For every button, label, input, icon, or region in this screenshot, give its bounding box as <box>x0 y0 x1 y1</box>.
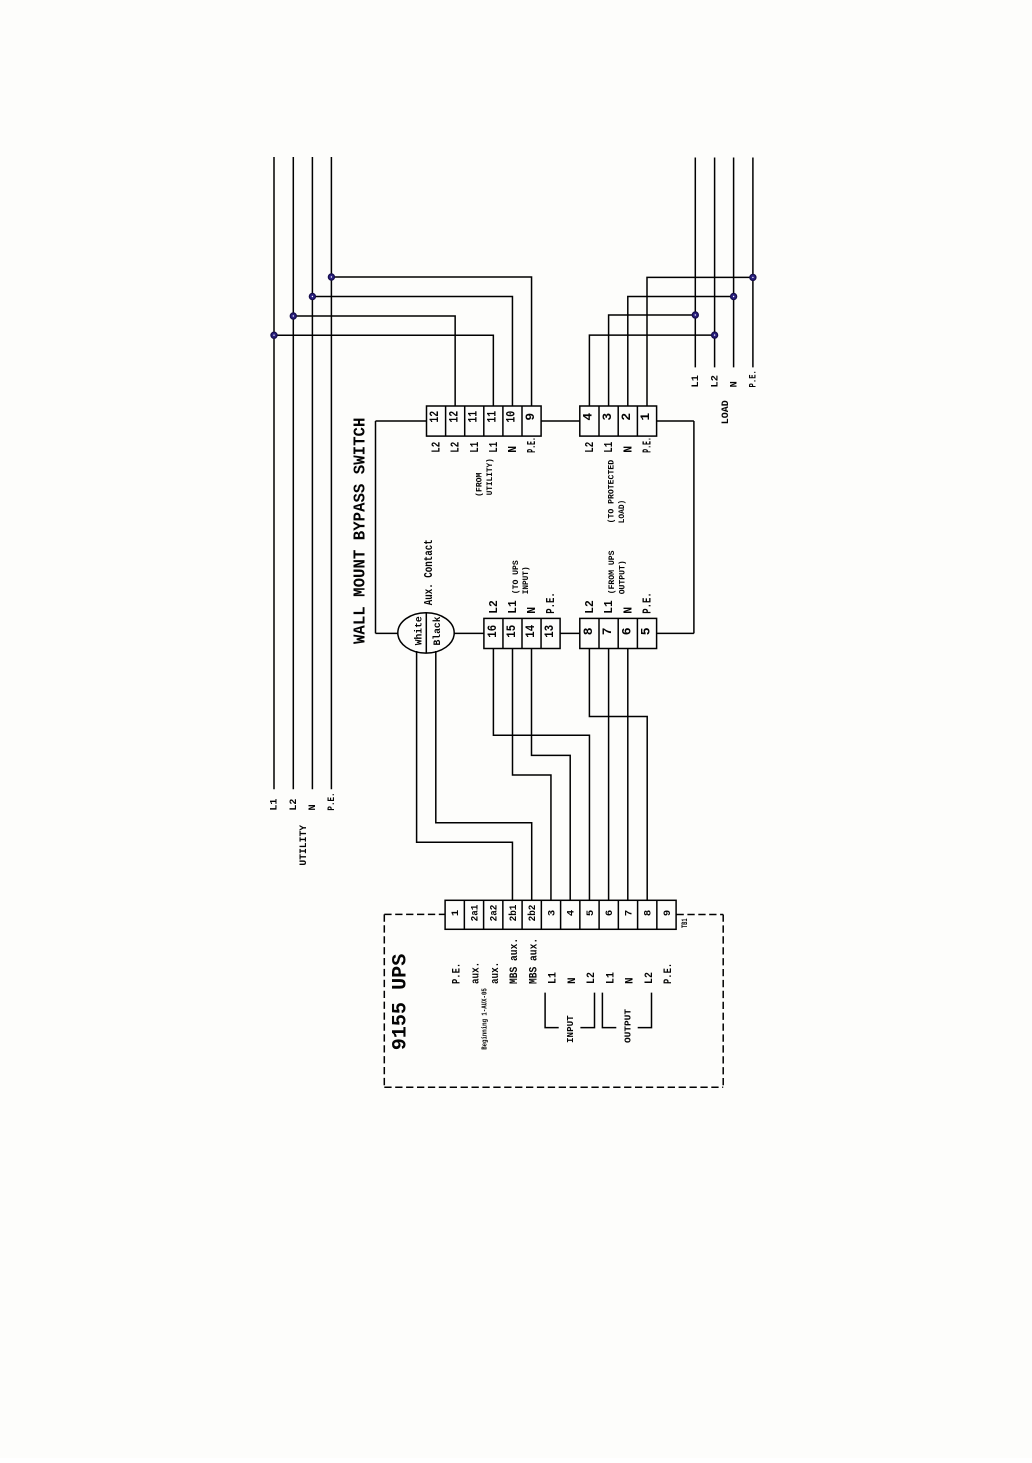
svg-text:L1: L1 <box>603 442 616 453</box>
svg-text:MBS aux.: MBS aux. <box>509 938 521 984</box>
svg-text:2b1: 2b1 <box>508 905 520 922</box>
svg-text:aux.: aux. <box>471 962 483 984</box>
svg-text:P.E.: P.E. <box>663 963 675 984</box>
svg-text:3: 3 <box>600 413 615 421</box>
svg-text:L2: L2 <box>584 600 597 614</box>
svg-text:aux.: aux. <box>490 962 502 984</box>
svg-text:L2: L2 <box>488 600 501 614</box>
svg-text:5: 5 <box>585 910 597 916</box>
svg-text:N: N <box>622 607 635 614</box>
svg-text:P.E.: P.E. <box>326 792 338 810</box>
svg-text:13: 13 <box>542 625 557 638</box>
svg-text:16: 16 <box>485 625 500 638</box>
svg-text:N: N <box>625 977 637 984</box>
svg-text:4: 4 <box>566 910 578 916</box>
svg-text:(FROM UPS: (FROM UPS <box>607 551 617 595</box>
svg-text:1: 1 <box>638 413 653 421</box>
svg-text:1: 1 <box>450 910 462 916</box>
svg-text:9: 9 <box>662 910 674 916</box>
svg-text:Beginning 1-AUX-05: Beginning 1-AUX-05 <box>482 988 490 1050</box>
svg-text:11: 11 <box>465 411 480 423</box>
svg-text:3: 3 <box>546 910 558 916</box>
svg-text:2: 2 <box>619 413 634 421</box>
svg-text:L2: L2 <box>709 375 721 387</box>
svg-text:L1: L1 <box>488 442 501 453</box>
svg-text:2a2: 2a2 <box>489 905 501 922</box>
svg-text:N: N <box>567 977 579 984</box>
svg-text:P.E.: P.E. <box>748 370 760 387</box>
svg-text:(FROM: (FROM <box>475 473 485 497</box>
svg-text:L2: L2 <box>431 442 444 453</box>
svg-text:9: 9 <box>523 413 538 421</box>
svg-text:12: 12 <box>427 411 442 423</box>
svg-text:5: 5 <box>639 627 654 635</box>
svg-text:8: 8 <box>643 910 655 916</box>
svg-text:N: N <box>526 607 539 614</box>
svg-text:L1: L1 <box>690 375 702 387</box>
svg-text:10: 10 <box>504 411 519 423</box>
svg-text:P.E.: P.E. <box>451 963 463 984</box>
svg-text:LOAD: LOAD <box>720 400 732 424</box>
svg-text:11: 11 <box>485 411 500 423</box>
svg-text:L1: L1 <box>603 600 616 614</box>
svg-text:P.E.: P.E. <box>642 437 655 453</box>
svg-text:L1: L1 <box>605 972 617 984</box>
svg-text:2a1: 2a1 <box>469 905 481 922</box>
svg-text:UTILITY: UTILITY <box>298 824 310 865</box>
svg-text:MBS aux.: MBS aux. <box>528 938 540 984</box>
svg-text:N: N <box>507 446 520 453</box>
svg-text:WALL MOUNT BYPASS SWITCH: WALL MOUNT BYPASS SWITCH <box>351 418 370 644</box>
svg-text:L2: L2 <box>586 972 598 984</box>
svg-text:6: 6 <box>604 910 616 916</box>
svg-text:INPUT): INPUT) <box>521 566 531 594</box>
svg-text:15: 15 <box>504 625 519 638</box>
svg-text:P.E.: P.E. <box>642 592 655 614</box>
svg-text:OUTPUT): OUTPUT) <box>617 560 627 594</box>
svg-text:(TO UPS: (TO UPS <box>511 560 521 594</box>
svg-text:4: 4 <box>581 413 596 421</box>
svg-text:Aux. Contact: Aux. Contact <box>422 539 436 605</box>
svg-text:L1: L1 <box>548 972 560 984</box>
svg-text:Black: Black <box>432 617 444 646</box>
svg-text:N: N <box>622 446 635 453</box>
svg-text:INPUT: INPUT <box>566 1015 576 1043</box>
svg-text:TB1: TB1 <box>680 919 690 929</box>
svg-text:White: White <box>414 616 426 645</box>
svg-text:12: 12 <box>446 411 461 423</box>
svg-text:6: 6 <box>619 627 634 635</box>
svg-text:UTILITY): UTILITY) <box>485 458 495 495</box>
svg-text:P.E.: P.E. <box>526 437 539 453</box>
svg-text:8: 8 <box>581 627 596 635</box>
svg-text:OUTPUT: OUTPUT <box>624 1008 634 1043</box>
svg-text:14: 14 <box>523 625 538 638</box>
svg-text:7: 7 <box>623 910 635 916</box>
svg-text:N: N <box>307 804 319 810</box>
svg-text:L1: L1 <box>269 799 281 811</box>
svg-text:L1: L1 <box>469 442 482 453</box>
svg-text:9155 UPS: 9155 UPS <box>389 954 412 1051</box>
svg-text:N: N <box>728 381 740 387</box>
svg-text:L2: L2 <box>450 442 463 453</box>
svg-text:L1: L1 <box>507 600 520 614</box>
svg-text:2b2: 2b2 <box>527 905 539 922</box>
svg-text:L2: L2 <box>644 972 656 984</box>
svg-text:(TO PROTECTED: (TO PROTECTED <box>607 460 617 524</box>
svg-text:P.E.: P.E. <box>545 592 558 614</box>
svg-text:7: 7 <box>600 627 615 635</box>
svg-text:L2: L2 <box>288 799 300 811</box>
svg-text:L2: L2 <box>584 442 597 453</box>
svg-text:LOAD): LOAD) <box>617 500 627 524</box>
